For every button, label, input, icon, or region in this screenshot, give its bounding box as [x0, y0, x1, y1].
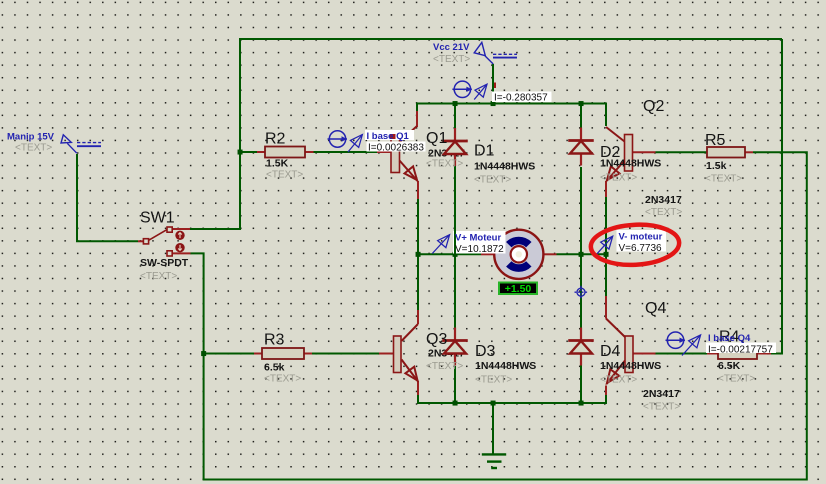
svg-text:<TEXT>: <TEXT> [474, 175, 511, 186]
svg-text:1N4448HWS: 1N4448HWS [600, 158, 661, 170]
svg-text:V=10.1872: V=10.1872 [455, 244, 504, 255]
svg-text:<TEXT>: <TEXT> [15, 143, 52, 154]
svg-text:1N4448HWS: 1N4448HWS [475, 360, 536, 372]
svg-text:D4: D4 [600, 343, 621, 360]
svg-text:R3: R3 [264, 332, 285, 349]
svg-text:R2: R2 [265, 131, 286, 148]
svg-text:1N4448HWS: 1N4448HWS [600, 360, 661, 372]
svg-text:D1: D1 [474, 143, 495, 160]
svg-text:Q2: Q2 [643, 98, 664, 115]
svg-text:I base Q4: I base Q4 [708, 333, 751, 344]
svg-text:Q3: Q3 [426, 331, 447, 348]
svg-text:1.5k: 1.5k [706, 160, 727, 172]
svg-text:<TEXT>: <TEXT> [264, 374, 301, 385]
svg-text:I=0.0026383: I=0.0026383 [368, 143, 424, 154]
svg-text:2N3417: 2N3417 [645, 194, 682, 206]
svg-text:<TEXT>: <TEXT> [266, 170, 303, 181]
svg-text:I base Q1: I base Q1 [367, 131, 410, 142]
svg-text:<TEXT>: <TEXT> [705, 174, 742, 185]
svg-text:<TEXT>: <TEXT> [433, 54, 470, 65]
svg-text:R5: R5 [705, 132, 726, 149]
svg-text:V+ Moteur: V+ Moteur [455, 233, 501, 244]
svg-text:D3: D3 [475, 343, 496, 360]
svg-text:<TEXT>: <TEXT> [426, 361, 463, 372]
svg-text:<TEXT>: <TEXT> [718, 374, 755, 385]
svg-text:Vcc 21V: Vcc 21V [433, 42, 470, 53]
svg-text:1N4448HWS: 1N4448HWS [474, 161, 535, 173]
svg-text:<TEXT>: <TEXT> [645, 207, 682, 218]
svg-text:<TEXT>: <TEXT> [426, 159, 463, 170]
svg-text:Q1: Q1 [426, 130, 447, 147]
svg-text:Q4: Q4 [645, 300, 666, 317]
svg-text:<TEXT>: <TEXT> [140, 271, 177, 282]
svg-text:Manip 15V: Manip 15V [7, 132, 55, 143]
svg-text:<TEXT>: <TEXT> [600, 173, 637, 184]
svg-text:<TEXT>: <TEXT> [475, 375, 512, 386]
svg-text:I=-0.280357: I=-0.280357 [494, 93, 548, 104]
svg-text:V- moteur: V- moteur [619, 232, 663, 243]
svg-text:2N3417: 2N3417 [643, 388, 680, 400]
svg-text:1.5K: 1.5K [266, 158, 289, 170]
svg-text:SW-SPDT: SW-SPDT [140, 257, 189, 269]
svg-text:V=6.7736: V=6.7736 [619, 243, 663, 254]
svg-text:SW1: SW1 [140, 210, 175, 227]
svg-text:6.5K: 6.5K [718, 360, 741, 372]
svg-text:<TEXT>: <TEXT> [600, 375, 637, 386]
svg-text:I=-0.00217757: I=-0.00217757 [708, 345, 773, 356]
svg-text:6.5k: 6.5k [264, 362, 285, 374]
svg-text:<TEXT>: <TEXT> [643, 402, 680, 413]
svg-text:+1.50: +1.50 [505, 283, 532, 295]
